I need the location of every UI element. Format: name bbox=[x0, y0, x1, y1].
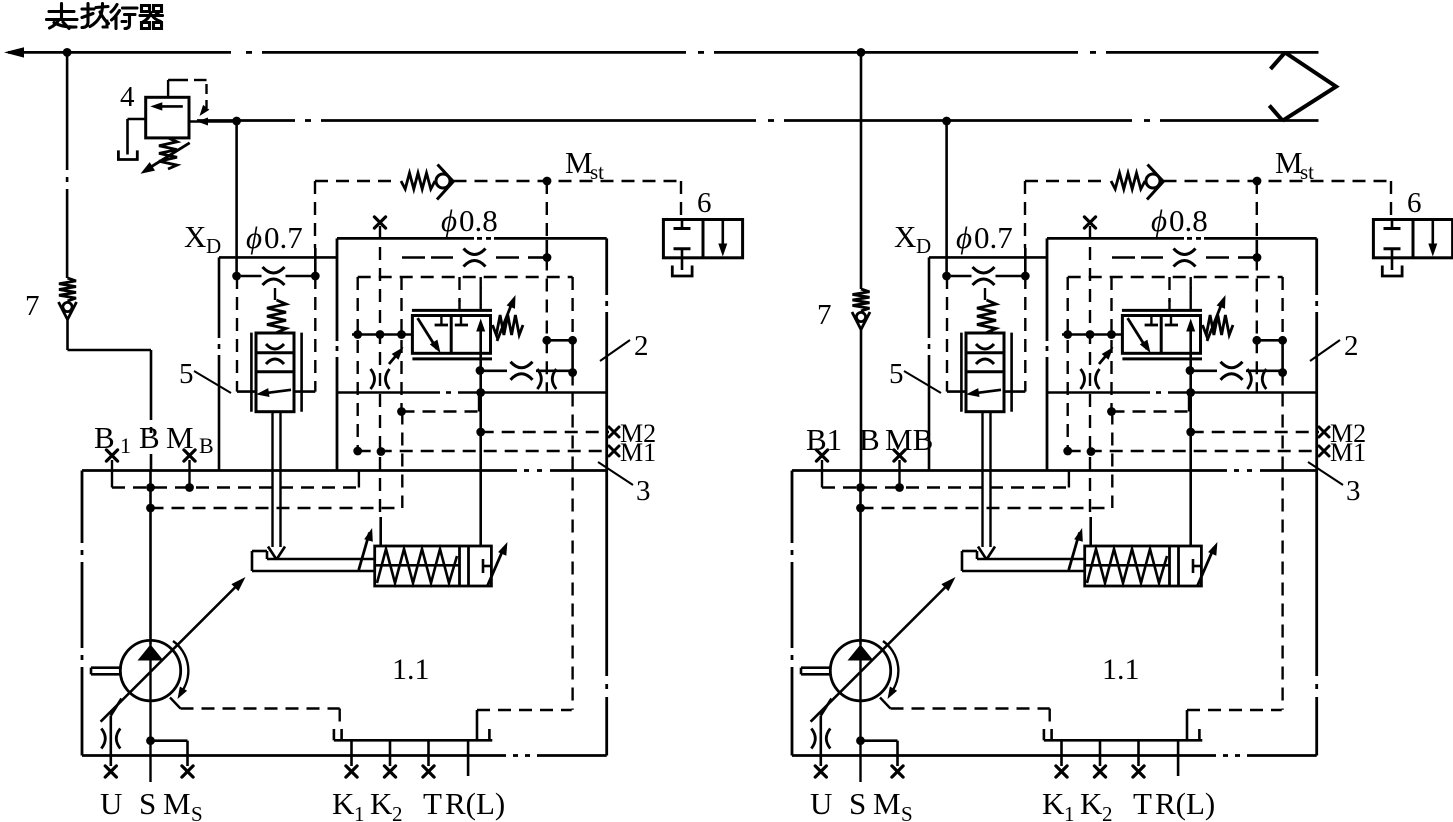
main delivery rail (chain line) bbox=[8, 51, 231, 54]
branch line to relief (chain line) bbox=[66, 52, 69, 170]
relief valve 4 tank symbol bbox=[118, 150, 137, 159]
relief valve 4 outlet bbox=[189, 120, 237, 123]
drain routing jog bbox=[66, 320, 69, 351]
right drop to port B bbox=[860, 330, 863, 471]
relief valve 4 spring bbox=[159, 138, 177, 169]
svg-text:B: B bbox=[199, 433, 214, 458]
control rail (chain line) bbox=[197, 119, 295, 122]
junction dot right rail bbox=[857, 48, 866, 57]
svg-text:M: M bbox=[166, 420, 194, 455]
arrow to actuator bbox=[4, 47, 24, 57]
right pump unit 1 (mirror copy) bbox=[792, 117, 1453, 822]
line continuation chevron bbox=[1283, 53, 1337, 121]
relief valve 4 pilot (dashed) bbox=[167, 80, 169, 97]
relief valve 4 body bbox=[146, 97, 189, 138]
check valve 7 left bbox=[59, 278, 76, 301]
relief valve 4 adjust arrow bbox=[146, 143, 190, 170]
caption 去执行器 bbox=[47, 4, 163, 29]
jog drop to port B (chain line) bbox=[150, 350, 153, 420]
svg-text:B: B bbox=[859, 422, 880, 457]
svg-text:4: 4 bbox=[120, 81, 135, 113]
svg-text:7: 7 bbox=[817, 299, 832, 331]
right branch to check valve 7 bbox=[860, 52, 863, 289]
svg-text:1: 1 bbox=[120, 433, 131, 458]
junction dot left rail bbox=[63, 48, 72, 57]
relief valve 4 internal arrow bbox=[156, 105, 183, 108]
svg-text:MB: MB bbox=[885, 422, 933, 457]
svg-text:7: 7 bbox=[25, 290, 40, 322]
check valve 7 right bbox=[853, 289, 870, 311]
svg-text:B: B bbox=[94, 420, 115, 455]
svg-text:B: B bbox=[139, 420, 160, 455]
left pump unit 1 bbox=[82, 117, 743, 822]
relief valve 4 drain bbox=[128, 118, 146, 121]
